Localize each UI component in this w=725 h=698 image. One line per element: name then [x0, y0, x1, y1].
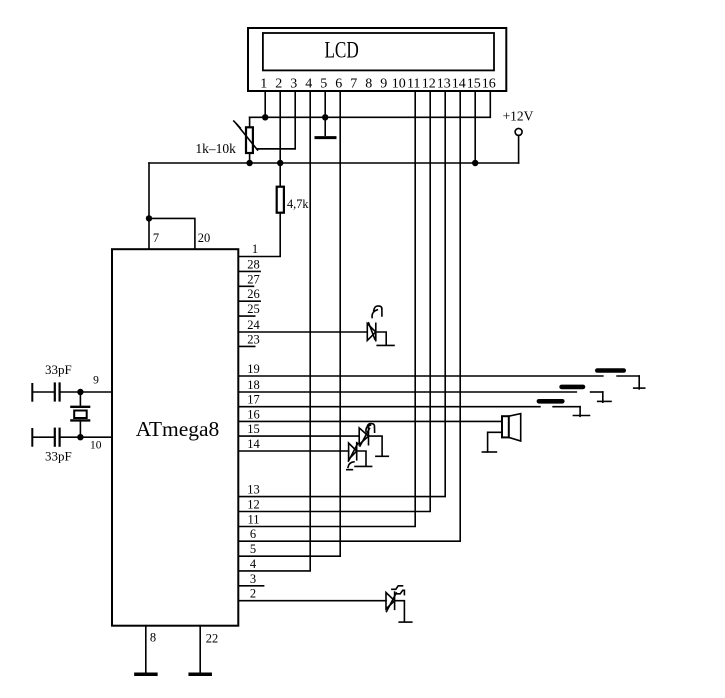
svg-text:17: 17 [247, 393, 260, 407]
svg-text:24: 24 [247, 318, 260, 332]
svg-text:12: 12 [247, 498, 260, 512]
svg-text:2: 2 [250, 587, 256, 601]
node junction reset resistor on rail [277, 160, 283, 166]
LCD module inner display box [263, 33, 494, 70]
wire MCU pin 10 [60, 436, 112, 438]
wire LCD pin 16 down and left to ground line [250, 91, 491, 117]
ground bar LED D3 [355, 465, 372, 467]
svg-text:4: 4 [305, 77, 312, 92]
svg-text:16: 16 [482, 77, 496, 92]
svg-text:14: 14 [247, 437, 260, 451]
ground bar pin 22 [190, 673, 210, 677]
svg-text:LCD: LCD [324, 38, 358, 63]
open terminal bar C2 [31, 429, 33, 446]
wire switch S1 to ground [638, 376, 640, 389]
svg-text:15: 15 [467, 77, 481, 92]
potentiometer arrow head tick [234, 121, 240, 128]
pin 23 stub [238, 345, 254, 347]
svg-text:15: 15 [247, 422, 260, 436]
wire MCU pin 15 to LED2 [238, 435, 359, 437]
potentiometer top wire to ground line [249, 117, 251, 127]
right side pin number labels [247, 242, 260, 601]
svg-text:4: 4 [250, 557, 257, 571]
node junction LCD pin15 on rail [472, 160, 478, 166]
svg-text:33pF: 33pF [45, 449, 72, 464]
potentiometer 1k-10k body [246, 127, 253, 153]
svg-text:1k–10k: 1k–10k [195, 141, 236, 156]
wire speaker second terminal to ground [488, 432, 502, 452]
svg-text:18: 18 [247, 378, 260, 392]
node junction LCD pin5 on ground line [322, 114, 328, 120]
wire LED D2 cathode to ground [369, 436, 383, 456]
wire LED D4 cathode to ground [395, 601, 405, 622]
LCD pin numbers 1-16 [260, 77, 496, 92]
ground bar LED D4 [399, 621, 412, 623]
svg-text:33pF: 33pF [45, 362, 72, 377]
svg-text:1: 1 [260, 77, 267, 92]
ground bar S3 [573, 415, 589, 417]
wire switch S2 to ground [602, 392, 604, 402]
LED D3 light arrow [347, 462, 354, 470]
svg-text:23: 23 [247, 332, 260, 346]
svg-text:ATmega8: ATmega8 [136, 417, 220, 441]
svg-text:7: 7 [153, 231, 159, 245]
resistor 4,7k [279, 163, 281, 187]
switch S1 contact bar [595, 368, 626, 373]
wire LCD pin 4 down to MCU pin 4 [238, 91, 310, 571]
svg-text:25: 25 [247, 302, 260, 316]
svg-text:12: 12 [422, 77, 436, 92]
svg-text:11: 11 [407, 77, 420, 92]
svg-text:20: 20 [198, 231, 211, 245]
pin 3 stub [238, 585, 263, 587]
svg-text:5: 5 [320, 77, 327, 92]
ground bar pin 8 [136, 673, 156, 677]
speaker SP1 [502, 416, 509, 437]
ground bar speaker [482, 451, 496, 453]
svg-text:13: 13 [437, 77, 451, 92]
ground bar LED D2 [376, 455, 388, 457]
LED D2 at pin 15 [359, 428, 368, 445]
crystal Y1 [79, 392, 81, 407]
pin 28 stub [238, 270, 260, 272]
svg-text:10: 10 [392, 77, 406, 92]
wire MCU pin 18 to switch S2 [238, 391, 576, 393]
wire LCD pin 11 down to MCU pin 11 [238, 91, 415, 527]
ground bar S2 [598, 400, 611, 402]
LCD module outer box [248, 28, 506, 91]
wire MCU pin 9 [60, 391, 112, 393]
svg-text:5: 5 [250, 542, 256, 556]
svg-text:3: 3 [250, 572, 256, 586]
svg-text:28: 28 [247, 257, 260, 271]
wire LCD pin 14 down to MCU pin 6 [238, 91, 460, 541]
svg-text:7: 7 [350, 77, 357, 92]
wire LCD pin 3 down to pot wiper [258, 91, 296, 149]
svg-text:2: 2 [275, 77, 282, 92]
svg-text:+12V: +12V [503, 109, 534, 124]
svg-text:8: 8 [365, 77, 372, 92]
ground bar LED D1 [377, 344, 394, 346]
LED D4 at pin 2 [386, 593, 395, 610]
svg-text:1: 1 [252, 242, 258, 256]
svg-text:9: 9 [380, 77, 387, 92]
svg-text:11: 11 [247, 513, 259, 527]
wire MCU pin 19 to switch S1 [238, 375, 603, 377]
svg-text:16: 16 [247, 407, 260, 421]
pin 25 stub [238, 315, 254, 317]
svg-text:6: 6 [250, 527, 256, 541]
+5V rail horizontal wire [149, 162, 519, 164]
svg-text:14: 14 [452, 77, 466, 92]
svg-text:6: 6 [335, 77, 342, 92]
capacitor C1 33pF plates [54, 384, 56, 401]
wire LCD pin 1 down to ground line [264, 91, 266, 117]
potentiometer bottom wire to +5V rail [249, 153, 251, 163]
wire LCD pin 6 down to MCU pin 5 [238, 91, 340, 556]
wire LED D3 cathode to ground [357, 451, 366, 466]
svg-text:27: 27 [247, 272, 260, 286]
node junction LCD pin1 on ground line [262, 114, 268, 120]
open terminal bar C1 [31, 384, 33, 401]
capacitor C2 33pF plates [54, 429, 56, 446]
wire LCD pin 5 down to ground symbol [324, 91, 326, 135]
ground bar S1 [634, 387, 645, 389]
svg-text:13: 13 [247, 483, 260, 497]
LED D4 light arrow [392, 586, 405, 595]
wire +12V terminal to rail [518, 135, 520, 163]
svg-text:26: 26 [247, 287, 260, 301]
LED D1 light arrow [372, 306, 382, 318]
wire MCU pin 14 to LED3 [238, 450, 348, 452]
LED D1 at pin 24 [367, 324, 376, 341]
wire MCU pin 2 to LED4 [238, 600, 386, 602]
wire MCU pin 17 to switch S3 [238, 406, 540, 408]
LED D3 at pin 14 [349, 443, 357, 460]
svg-text:8: 8 [150, 631, 156, 645]
potentiometer wiper arrow [237, 124, 258, 150]
svg-text:10: 10 [90, 440, 102, 452]
ground bar under LCD pin 5 [316, 136, 335, 139]
wire pin 22 to ground [199, 626, 201, 673]
pin 26 stub [238, 300, 260, 302]
svg-text:9: 9 [93, 375, 99, 387]
wire pin 8 to ground [145, 626, 147, 673]
switch S3 contact bar [537, 399, 565, 404]
svg-text:4,7k: 4,7k [287, 197, 309, 211]
wire LCD pin 12 down to MCU pin 12 [238, 91, 430, 512]
wire LED D1 cathode to ground [376, 332, 386, 345]
svg-text:3: 3 [290, 77, 297, 92]
node junction crystal bottom [77, 434, 83, 440]
switch S2 contact bar [559, 385, 585, 390]
node junction supply bracket [146, 215, 152, 221]
node junction crystal top [77, 389, 83, 395]
wire LCD pin 15 down to +5V rail [474, 91, 476, 163]
pin 27 stub [238, 285, 253, 287]
wire supply bracket to pin 20 [149, 218, 195, 249]
wire MCU pin 24 to LED1 [238, 331, 366, 333]
LED D2 light arrow [366, 424, 375, 433]
wire LCD pin 13 down to MCU pin 13 [238, 91, 445, 497]
wire switch S3 to ground [579, 407, 581, 417]
IC ATmega8 body [112, 249, 238, 626]
wire MCU pin 16 to speaker [238, 420, 502, 422]
wire rail left end down to MCU supply pins [148, 163, 150, 249]
node junction pot bottom on rail [246, 160, 252, 166]
wire pot wiper to LCD pin 3 [258, 148, 296, 150]
svg-text:19: 19 [247, 362, 260, 376]
svg-text:22: 22 [206, 632, 219, 646]
wire LCD pin 2 down to +5V rail [279, 91, 281, 163]
